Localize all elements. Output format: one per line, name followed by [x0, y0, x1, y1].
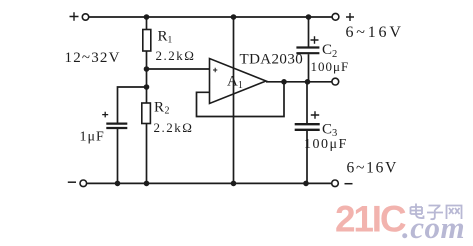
terminal mid-right output — [332, 78, 339, 85]
svg-text:R1: R1 — [158, 29, 173, 46]
wire C2 bottom lead — [308, 54, 310, 82]
wire C3 top lead — [306, 82, 308, 124]
label + (top-left input polarity) — [70, 12, 79, 21]
svg-text:TDA2030: TDA2030 — [240, 52, 304, 68]
wire feedback loop — [197, 82, 285, 117]
svg-text:2.2kΩ: 2.2kΩ — [154, 120, 194, 135]
junction node C1 bottom rail — [115, 181, 121, 187]
resistor R2 — [142, 103, 151, 124]
terminal bottom-right negative output — [332, 180, 339, 187]
watermark chinese char wang — [447, 206, 462, 220]
svg-text:100μF: 100μF — [304, 137, 348, 152]
watermark chinese char zi — [427, 206, 443, 220]
resistor R1 — [143, 30, 151, 52]
terminal top-left positive input — [82, 14, 88, 20]
label + (C1 polarity) — [102, 112, 108, 118]
wire R1 to R2 — [146, 51, 148, 103]
terminal bottom-left negative input — [80, 180, 87, 187]
label - (bottom-left input polarity) — [68, 181, 76, 183]
junction node noninverting branch — [144, 66, 150, 72]
junction node C3 bottom rail — [303, 181, 309, 187]
svg-text:R2: R2 — [154, 100, 170, 117]
label + (C2 polarity) — [311, 36, 319, 44]
svg-text:A1: A1 — [227, 74, 243, 92]
wire R1 top lead — [146, 17, 148, 30]
svg-text:100μF: 100μF — [311, 59, 350, 74]
junction node R2 bottom rail — [144, 181, 150, 187]
wire bottom rail — [87, 182, 332, 184]
op-amp A1 triangle — [210, 59, 267, 104]
wire supply vertical through op-amp — [233, 17, 235, 183]
wire output rail — [266, 81, 332, 83]
junction node supply bottom rail — [231, 181, 237, 187]
svg-text:.com: .com — [402, 210, 465, 245]
junction node C2 C3 output — [305, 79, 311, 85]
wire C3 bottom lead — [306, 131, 308, 184]
wire C2 top lead — [308, 17, 310, 47]
svg-text:12~32V: 12~32V — [65, 50, 121, 66]
junction node feedback output — [281, 79, 287, 85]
junction node C1 branch — [144, 84, 150, 90]
svg-text:1μF: 1μF — [80, 130, 105, 145]
label + (C3 polarity) — [311, 111, 319, 119]
terminal top-right positive output — [332, 13, 339, 20]
junction node supply top rail — [231, 14, 237, 20]
noninverting + marker inside op-amp — [213, 68, 217, 72]
junction node C2 top rail — [306, 14, 312, 20]
wire R2 bottom lead — [146, 124, 148, 184]
watermark chinese char dian — [411, 204, 424, 219]
label - (bottom-right output polarity) — [345, 183, 353, 185]
wire top rail — [89, 16, 332, 18]
label + (top-right output polarity) — [346, 13, 354, 21]
svg-text:21IC: 21IC — [335, 199, 406, 240]
capacitor C3 — [295, 124, 320, 130]
capacitor C1 1uF — [106, 124, 127, 128]
junction node R1 top rail — [144, 14, 150, 20]
wire C1 bottom lead — [117, 129, 119, 183]
svg-text:6~16V: 6~16V — [346, 24, 404, 41]
wire noninverting input — [147, 68, 210, 70]
capacitor C2 — [296, 48, 319, 54]
wire C1 branch — [118, 87, 147, 123]
svg-text:6~16V: 6~16V — [347, 160, 399, 177]
svg-text:2.2kΩ: 2.2kΩ — [156, 48, 196, 63]
svg-text:C2: C2 — [322, 42, 337, 60]
